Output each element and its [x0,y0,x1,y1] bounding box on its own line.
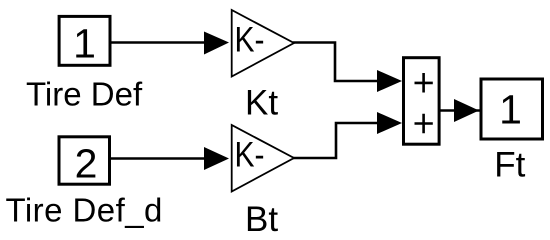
svg-text:Kt: Kt [245,84,278,123]
svg-text:Tire Def: Tire Def [26,76,143,113]
svg-text:1: 1 [499,87,522,133]
svg-text:K-: K- [235,135,265,174]
svg-text:K-: K- [235,20,265,59]
svg-text:Tire Def_d: Tire Def_d [6,192,163,229]
svg-text:Bt: Bt [245,200,278,239]
svg-text:Ft: Ft [494,146,525,185]
svg-text:1: 1 [73,20,96,66]
svg-text:2: 2 [75,141,98,187]
